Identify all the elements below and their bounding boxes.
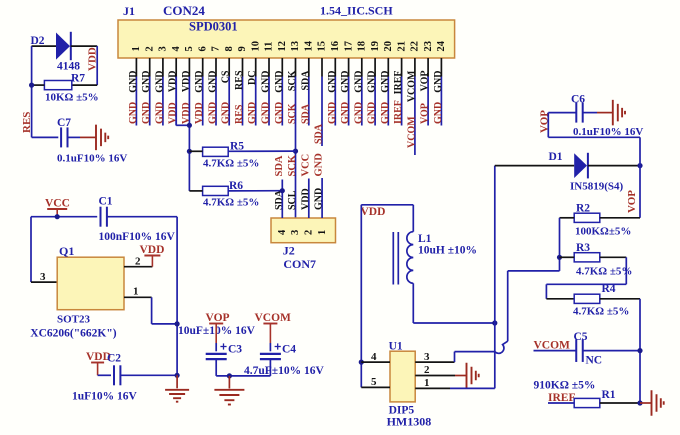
svg-text:IREF: IREF — [393, 71, 404, 95]
svg-text:11: 11 — [264, 42, 275, 52]
svg-text:6: 6 — [197, 46, 208, 51]
svg-text:0.1uF10% 16V: 0.1uF10% 16V — [57, 153, 127, 165]
svg-text:GND: GND — [274, 71, 285, 93]
svg-text:GND: GND — [353, 102, 364, 124]
svg-text:VCOM: VCOM — [406, 116, 417, 148]
svg-text:SDA: SDA — [274, 155, 285, 176]
svg-text:2: 2 — [424, 364, 430, 376]
svg-text:18: 18 — [357, 41, 368, 52]
svg-text:GND: GND — [314, 153, 325, 177]
svg-text:IREF: IREF — [393, 100, 404, 124]
svg-text:3: 3 — [40, 271, 46, 283]
svg-text:SDA: SDA — [300, 103, 311, 124]
svg-text:24: 24 — [436, 40, 447, 51]
svg-text:GND: GND — [221, 102, 232, 124]
svg-text:VCC: VCC — [300, 154, 311, 177]
svg-text:5: 5 — [371, 376, 377, 388]
svg-text:NC: NC — [586, 355, 603, 367]
svg-text:VDD: VDD — [181, 71, 192, 93]
svg-text:15: 15 — [317, 41, 328, 52]
svg-text:2: 2 — [135, 256, 141, 268]
svg-text:VDD: VDD — [168, 71, 179, 93]
svg-text:4: 4 — [277, 229, 288, 235]
svg-text:GND: GND — [367, 102, 378, 124]
svg-text:1.54_IIC.SCH: 1.54_IIC.SCH — [320, 4, 393, 18]
svg-text:J1: J1 — [123, 4, 135, 18]
svg-text:CS: CS — [221, 70, 232, 83]
svg-text:R2: R2 — [576, 203, 590, 215]
svg-text:GND: GND — [340, 102, 351, 124]
svg-text:GND: GND — [247, 102, 258, 124]
svg-text:Q1: Q1 — [59, 244, 74, 258]
svg-text:U1: U1 — [389, 341, 403, 353]
svg-text:C3: C3 — [228, 344, 242, 356]
svg-text:R4: R4 — [602, 283, 616, 295]
svg-text:RES: RES — [21, 112, 33, 133]
svg-text:4.7KΩ ±5%: 4.7KΩ ±5% — [576, 266, 632, 278]
svg-text:VDD: VDD — [194, 102, 205, 124]
svg-text:3: 3 — [158, 46, 169, 51]
svg-text:GND: GND — [327, 71, 338, 93]
svg-text:17: 17 — [343, 41, 354, 52]
svg-text:GND: GND — [433, 102, 444, 124]
svg-text:R6: R6 — [229, 180, 243, 192]
svg-text:100KΩ±5%: 100KΩ±5% — [575, 226, 631, 238]
svg-text:IN5819(S4): IN5819(S4) — [570, 181, 624, 193]
svg-text:GND: GND — [367, 71, 378, 93]
svg-text:GND: GND — [154, 71, 165, 93]
svg-text:2: 2 — [304, 230, 315, 235]
svg-text:12: 12 — [277, 41, 288, 52]
svg-text:19: 19 — [370, 41, 381, 52]
svg-text:910KΩ ±5%: 910KΩ ±5% — [534, 380, 596, 392]
svg-text:3: 3 — [424, 351, 430, 363]
svg-text:GND: GND — [433, 71, 444, 93]
svg-text:23: 23 — [423, 41, 434, 52]
svg-text:GND: GND — [261, 102, 272, 124]
svg-text:CON24: CON24 — [163, 3, 205, 18]
svg-text:VCOM: VCOM — [534, 340, 571, 352]
svg-text:4: 4 — [171, 46, 182, 52]
svg-text:VDD: VDD — [140, 244, 165, 256]
svg-text:C1: C1 — [99, 196, 113, 208]
svg-text:SPD0301: SPD0301 — [189, 20, 238, 34]
svg-text:SCK: SCK — [287, 154, 298, 176]
svg-text:VCC: VCC — [45, 198, 70, 210]
svg-text:GND: GND — [340, 71, 351, 93]
svg-text:GND: GND — [141, 102, 152, 124]
svg-text:SOT23: SOT23 — [57, 313, 91, 325]
svg-text:4.7KΩ ±5%: 4.7KΩ ±5% — [203, 197, 259, 209]
svg-text:C2: C2 — [107, 353, 121, 365]
svg-text:HM1308: HM1308 — [387, 415, 432, 429]
svg-text:VDD: VDD — [181, 102, 192, 124]
svg-text:R1: R1 — [602, 389, 616, 401]
svg-text:R7: R7 — [71, 72, 85, 84]
svg-text:GND: GND — [208, 102, 219, 124]
svg-text:8: 8 — [224, 46, 235, 51]
svg-text:VOP: VOP — [626, 190, 638, 213]
svg-text:GND: GND — [274, 102, 285, 124]
svg-text:4.7KΩ ±5%: 4.7KΩ ±5% — [573, 306, 629, 318]
svg-text:GND: GND — [327, 102, 338, 124]
svg-text:21: 21 — [396, 41, 407, 52]
svg-text:100nF10% 16V: 100nF10% 16V — [99, 231, 176, 243]
svg-text:1: 1 — [424, 377, 430, 389]
svg-text:SCL: SCL — [287, 190, 298, 210]
svg-text:RES: RES — [234, 104, 245, 124]
svg-text:13: 13 — [290, 41, 301, 52]
svg-text:C7: C7 — [57, 117, 71, 129]
svg-text:3: 3 — [290, 230, 301, 235]
svg-text:GND: GND — [128, 71, 139, 93]
svg-text:D2: D2 — [31, 35, 45, 47]
svg-text:VCOM: VCOM — [255, 312, 292, 324]
svg-text:GND: GND — [141, 71, 152, 93]
svg-text:10: 10 — [250, 41, 261, 52]
svg-text:DC: DC — [247, 71, 258, 85]
svg-text:VOP: VOP — [420, 103, 431, 124]
svg-text:R5: R5 — [230, 141, 244, 153]
svg-text:GND: GND — [380, 71, 391, 93]
svg-text:22: 22 — [410, 41, 421, 52]
svg-text:GND: GND — [261, 71, 272, 93]
svg-text:GND: GND — [380, 102, 391, 124]
svg-text:VDD: VDD — [361, 206, 386, 218]
svg-text:C4: C4 — [282, 344, 296, 356]
svg-text:2: 2 — [144, 46, 155, 51]
svg-text:9: 9 — [237, 46, 248, 51]
svg-text:VCOM: VCOM — [406, 70, 417, 102]
svg-text:4.7uF±10% 16V: 4.7uF±10% 16V — [244, 365, 324, 377]
svg-text:D1: D1 — [549, 151, 563, 163]
svg-text:XC6206("662K"): XC6206("662K") — [30, 328, 116, 340]
svg-text:16: 16 — [330, 41, 341, 52]
svg-text:4: 4 — [371, 351, 377, 363]
svg-text:GND: GND — [353, 71, 364, 93]
svg-text:10uH ±10%: 10uH ±10% — [418, 245, 477, 257]
svg-text:GND: GND — [208, 71, 219, 93]
svg-text:10KΩ ±5%: 10KΩ ±5% — [45, 92, 99, 104]
svg-text:GND: GND — [128, 102, 139, 124]
svg-text:SDA: SDA — [300, 70, 311, 91]
svg-text:R3: R3 — [576, 242, 590, 254]
svg-text:1: 1 — [131, 46, 142, 51]
svg-text:1: 1 — [133, 286, 139, 298]
svg-text:7: 7 — [211, 46, 222, 51]
svg-text:1uF10% 16V: 1uF10% 16V — [72, 391, 138, 403]
svg-text:VDD: VDD — [168, 102, 179, 124]
svg-text:VOP: VOP — [420, 71, 431, 92]
svg-text:20: 20 — [383, 41, 394, 52]
svg-text:0.1uF10% 16V: 0.1uF10% 16V — [573, 126, 643, 138]
svg-text:4.7KΩ ±5%: 4.7KΩ ±5% — [203, 158, 259, 170]
svg-text:SDA: SDA — [314, 123, 325, 144]
svg-text:CON7: CON7 — [283, 257, 316, 271]
svg-text:L1: L1 — [418, 233, 432, 245]
svg-text:J2: J2 — [283, 244, 295, 258]
svg-text:GND: GND — [194, 71, 205, 93]
svg-text:14: 14 — [304, 40, 315, 51]
svg-text:4148: 4148 — [57, 61, 80, 73]
svg-text:RES: RES — [234, 70, 245, 90]
svg-text:1: 1 — [317, 230, 328, 235]
svg-text:GND: GND — [154, 102, 165, 124]
svg-text:5: 5 — [184, 46, 195, 51]
svg-text:VOP: VOP — [206, 312, 230, 324]
